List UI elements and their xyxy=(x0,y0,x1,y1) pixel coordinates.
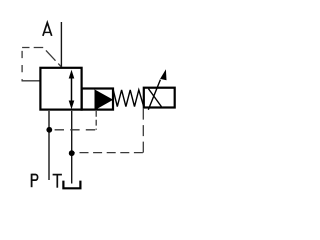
wire dashed drain vertical to pilot box xyxy=(142,108,144,153)
wire pilot dashed line top-left horizontal+vertical xyxy=(22,47,43,49)
node A label xyxy=(43,23,52,36)
adjustment arrow shaft xyxy=(148,80,160,110)
wire dashed pilot sense horizontal from dot1 xyxy=(55,129,97,131)
spring xyxy=(113,90,143,107)
pilot valve X diagonal xyxy=(148,89,161,107)
flow double arrow inside main box xyxy=(71,76,73,103)
port label P xyxy=(32,174,38,188)
wire P port line xyxy=(48,111,50,180)
pilot relief valve box xyxy=(144,88,175,108)
wire pilot stub into main valve left side xyxy=(22,80,40,82)
wire T drain line xyxy=(71,111,73,184)
port label T xyxy=(53,175,62,188)
junction dot on drain line xyxy=(69,150,75,156)
junction dot on P line xyxy=(46,127,52,133)
check valve poppet triangle xyxy=(95,89,114,110)
adjustment arrow head xyxy=(160,69,166,80)
wire dashed pilot sense vertical to check box xyxy=(95,111,97,130)
tank symbol xyxy=(63,181,80,189)
valve main box (pressure reducing element) xyxy=(40,68,81,110)
wire dashed drain horizontal from dot2 xyxy=(75,152,143,154)
wire A port line xyxy=(60,22,62,68)
wire pilot dashed diagonal to valve corner xyxy=(43,48,62,68)
check valve box xyxy=(82,89,113,110)
